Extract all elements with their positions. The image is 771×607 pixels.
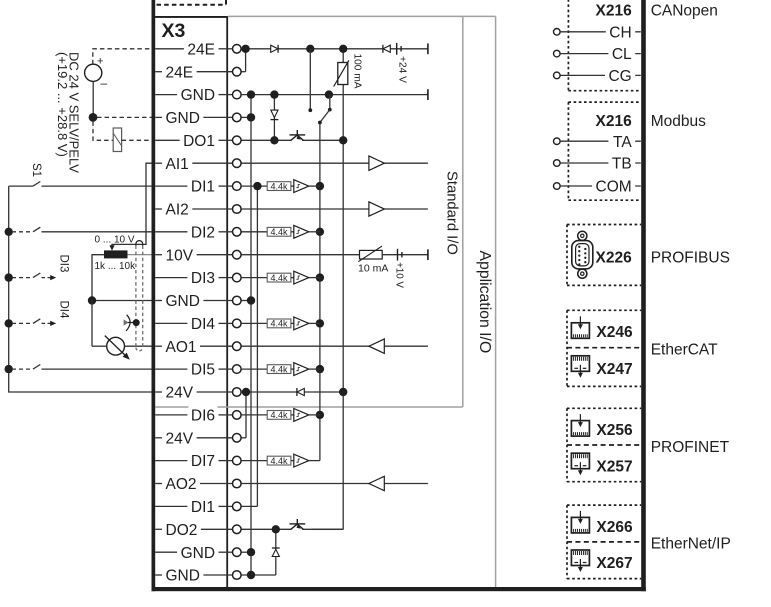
wire 24V row 16: [241, 391, 343, 393]
port RJ45 X247 out: [571, 356, 589, 372]
switch S1 to DI1: [9, 185, 33, 187]
junction switch bus DI5: [5, 365, 13, 373]
port RJ45 X266 in: [571, 517, 589, 533]
junction switch bus DI4: [5, 319, 13, 327]
terminal circle TA: [554, 138, 561, 145]
comparator DI3: [291, 277, 294, 279]
diode D3 vertical GND row3 to DO1: [273, 95, 275, 141]
wire digital-input common bus: [319, 123, 321, 461]
shield clamp: [126, 315, 130, 331]
svg-text:TB: TB: [612, 156, 632, 173]
svg-text:4.4k: 4.4k: [270, 181, 288, 191]
wire AI1 row 6: [241, 162, 428, 164]
wire relay to DO1 terminal (dashed): [122, 139, 152, 141]
wire DI5 comparator output: [309, 368, 320, 370]
wire AI1 to potentiometer wiper: [112, 163, 152, 248]
port RJ45 X267 out: [571, 550, 589, 566]
wire DI3 comparator output: [309, 277, 320, 279]
terminal circle DI2 row 9: [233, 228, 242, 237]
wire 24E pair bus: [245, 49, 247, 72]
wire COM: [560, 185, 641, 187]
svg-text:DI6: DI6: [191, 408, 215, 425]
junction DO1 output on +24V bus: [339, 136, 347, 144]
junction pot return on GND: [88, 296, 96, 304]
terminal circle AO1 row 14: [233, 342, 242, 351]
wire changeover NC branch from 24E: [309, 49, 311, 110]
svg-text:+24 V: +24 V: [397, 56, 408, 83]
contact DO1 output switch: [291, 135, 298, 140]
pin label DI2 row 9: [188, 222, 217, 241]
svg-text:X247: X247: [596, 361, 632, 378]
wire GND row 12 to GND bus: [241, 300, 251, 302]
resistor 4.4k DI6 input: [267, 411, 291, 420]
wire DI7 row 19 input: [241, 460, 267, 462]
junction 24V row 16: [242, 388, 250, 396]
junction shield connection: [133, 319, 140, 326]
X3 box top border: [152, 16, 229, 18]
wire meter to AO1 terminal: [125, 345, 152, 347]
pin label AO2 row 20: [163, 474, 199, 493]
svg-text:+10 V: +10 V: [394, 262, 405, 288]
Application I/O box: [463, 15, 496, 17]
svg-text:Application I/O: Application I/O: [476, 251, 493, 354]
svg-text:AI2: AI2: [166, 202, 189, 219]
comparator DI2: [291, 231, 294, 233]
terminal circle GND row 23: [233, 548, 242, 557]
cell +24 V external supply: [396, 43, 398, 55]
pin label DO2 row 22: [163, 520, 200, 539]
comparator DI6: [291, 414, 294, 416]
terminal circle DI7 row 19: [233, 456, 242, 465]
op-amp driver AO1: [369, 339, 384, 353]
diode D4 on 24V row: [296, 388, 298, 396]
svg-text:DI7: DI7: [191, 453, 215, 470]
wire GND bus: [250, 95, 252, 575]
svg-text:PROFIBUS: PROFIBUS: [651, 249, 730, 266]
svg-text:4.4k: 4.4k: [270, 273, 288, 283]
X3 box right border: [226, 16, 228, 587]
svg-text:X216: X216: [595, 113, 632, 130]
svg-text:COM: COM: [596, 179, 632, 196]
junction GND row 12: [247, 296, 255, 304]
wire DO2 row 22: [241, 528, 292, 530]
wire DI4 comparator output: [309, 322, 320, 324]
diode D2 at +24V supply: [382, 45, 384, 53]
terminal bar +24V input: [427, 43, 429, 54]
svg-text:DI3: DI3: [58, 255, 70, 273]
junction supply minus: [89, 113, 98, 122]
switch blade changeover: [320, 110, 330, 123]
terminal circle DI6 row 17: [233, 411, 242, 420]
svg-text:DI2: DI2: [191, 224, 215, 241]
meter P1 on AO1: [107, 337, 125, 355]
junction DI3 comparator output: [316, 273, 324, 281]
wire GND row 4 to GND bus: [241, 116, 251, 118]
svg-text:GND: GND: [166, 293, 200, 310]
wire DI4 row 13 input: [241, 322, 267, 324]
svg-text:10V: 10V: [166, 247, 194, 264]
wire GND row 23 to GND bus: [241, 551, 251, 553]
svg-text:DI1: DI1: [191, 499, 215, 516]
svg-text:Modbus: Modbus: [651, 113, 706, 130]
pin label 24V row 18: [163, 428, 196, 447]
wire DO1 row 5: [241, 139, 292, 141]
svg-text:DI4: DI4: [191, 316, 216, 333]
junction GND row 23: [247, 548, 255, 556]
wire meter left lead: [92, 345, 107, 347]
terminal circle DI1 row 7: [233, 182, 242, 191]
port RJ45 X256 in: [571, 421, 589, 437]
wire DI1 comparator output: [309, 185, 320, 187]
cable shield capsule: [136, 241, 143, 246]
wire changeover NO branch from GND: [329, 95, 331, 110]
junction GND row 3: [247, 90, 255, 98]
wire digital switch common bus: [9, 186, 152, 392]
switch to DI4 (remote): [12, 322, 33, 324]
svg-text:24E: 24E: [166, 64, 194, 81]
contact point NC: [308, 108, 312, 112]
svg-text:DI5: DI5: [191, 362, 215, 379]
terminal circle AI1 row 6: [233, 159, 242, 168]
option box PROFINET: [566, 408, 568, 481]
wire GND row 24 to freewheel diode: [241, 574, 276, 576]
svg-text:X257: X257: [596, 458, 632, 475]
wire DI1 row 21 link: [241, 505, 257, 507]
wire DI6 row 17 input: [241, 414, 267, 416]
terminal circle AO2 row 20: [233, 479, 242, 488]
svg-text:24V: 24V: [166, 385, 194, 402]
terminal circle DI3 row 11: [233, 273, 242, 282]
terminal circle CG: [554, 72, 561, 79]
svg-text:EtherCAT: EtherCAT: [651, 341, 718, 358]
junction changeover branch row 1: [306, 45, 314, 53]
wire pot return down to meter: [91, 301, 93, 347]
wire 24V pair bus rows 16-18: [245, 392, 247, 438]
diode D5 vertical DO2 to GND row24: [275, 529, 277, 575]
device frame bottom thick bar: [152, 587, 646, 591]
option box X216 Modbus: [567, 102, 569, 200]
relay load K1 on DO1: [113, 128, 121, 152]
svg-text:AI1: AI1: [166, 156, 189, 173]
Standard I/O box: [228, 15, 463, 17]
svg-text:X256: X256: [596, 422, 633, 439]
svg-text:CL: CL: [612, 46, 632, 63]
op-amp buffer AI2: [369, 202, 384, 216]
svg-text:–: –: [101, 76, 108, 90]
svg-text:DI1: DI1: [191, 179, 215, 196]
pin label DI5 row 15: [188, 360, 217, 379]
terminal circle DI4 row 13: [233, 319, 242, 328]
wire supply minus: [92, 81, 94, 117]
terminal bar 10V output: [427, 249, 429, 260]
option box EtherCAT: [566, 310, 568, 386]
svg-text:X226: X226: [595, 249, 632, 266]
svg-text:X246: X246: [596, 324, 633, 341]
terminal circle DO1 row 5: [233, 136, 242, 145]
svg-text:24V: 24V: [166, 430, 194, 447]
fuse F2 10 mA: [360, 250, 383, 259]
svg-text:100 mA: 100 mA: [352, 53, 363, 88]
svg-text:PROFINET: PROFINET: [651, 439, 730, 456]
terminal circle GND row 24: [233, 571, 242, 580]
junction switch bus DI2: [5, 228, 13, 236]
device frame right thick bar: [641, 0, 646, 591]
wire 10V supply segment: [382, 254, 428, 256]
terminal circle GND row 12: [233, 296, 242, 305]
resistor 4.4k DI3 input: [267, 273, 291, 282]
switch to DI2: [12, 231, 33, 233]
pin label AI2 row 8: [163, 200, 191, 219]
wire 24V row 18 link: [241, 437, 246, 439]
wire 10V row 10 to 10mA fuse: [241, 254, 360, 256]
svg-text:DO1: DO1: [183, 133, 215, 150]
svg-text:EtherNet/IP: EtherNet/IP: [651, 536, 731, 553]
junction DO1 diode branch: [270, 136, 278, 144]
pin label 24V row 16: [163, 383, 196, 402]
wire supply plus to 24E (dashed): [93, 49, 152, 64]
contact DO2 output switch: [291, 524, 298, 529]
svg-text:+: +: [97, 56, 103, 68]
svg-text:CH: CH: [609, 24, 631, 41]
svg-text:DO2: DO2: [166, 522, 198, 539]
svg-text:4.4k: 4.4k: [270, 410, 288, 420]
pin label DI7 row 19: [188, 451, 217, 470]
wire DI3 row 11 input: [241, 277, 267, 279]
terminal circle 10V row 10: [233, 250, 242, 259]
port RJ45 X257 out: [571, 453, 589, 469]
wire DI7 comparator output: [309, 460, 320, 462]
pin label DI3 row 11: [188, 268, 217, 287]
resistor 4.4k DI7 input: [267, 456, 291, 465]
option box EtherNet/IP: [566, 505, 568, 578]
pin label 10V row 10: [163, 245, 196, 264]
terminal circle 24E row 1: [233, 45, 242, 54]
svg-text:10 mA: 10 mA: [358, 263, 388, 275]
junction DI1 comparator output: [316, 182, 324, 190]
pin label GND row 3: [178, 85, 217, 104]
pin label AO1 row 14: [163, 337, 199, 356]
junction DI1 row 7: [253, 182, 261, 190]
terminal circle DI1 row 21: [233, 502, 242, 511]
op-amp buffer AI1: [369, 156, 384, 170]
wire DI2 comparator output: [309, 231, 320, 233]
svg-text:(+19.2 ... +28.8 V): (+19.2 ... +28.8 V): [55, 52, 70, 157]
option box X226 PROFIBUS: [566, 225, 568, 286]
junction DI5 comparator output: [316, 365, 324, 373]
X3 terminal strip left border: [152, 0, 156, 591]
svg-text:4.4k: 4.4k: [270, 227, 288, 237]
wire +24V internal bus: [342, 49, 344, 530]
pin label GND row 23: [178, 543, 217, 562]
wire AI2 row 8: [241, 208, 428, 210]
comparator DI4: [291, 322, 294, 324]
svg-text:X3: X3: [162, 20, 186, 42]
connector DB9 X226 icon: [572, 231, 593, 278]
wire DI1 row 7 input: [241, 185, 267, 187]
pin label AI1 row 6: [163, 154, 191, 173]
svg-text:X267: X267: [596, 555, 632, 572]
junction DI4 comparator output: [316, 319, 324, 327]
switch to DI5: [12, 368, 33, 370]
terminal circle TB: [554, 160, 561, 167]
cell +10 V reference: [397, 249, 399, 261]
svg-text:X266: X266: [596, 519, 633, 536]
wire CH: [560, 31, 641, 33]
wire supply minus to GND row4 (dashed): [97, 116, 152, 118]
comparator DI1: [291, 185, 294, 187]
wire 24E row 2 link: [241, 71, 246, 73]
svg-text:4.4k: 4.4k: [270, 319, 288, 329]
fuse F1 100 mA: [338, 63, 348, 85]
pin label GND row 24: [163, 566, 202, 585]
junction 24V row 16 on bus: [339, 388, 347, 396]
pin label DI6 row 17: [188, 406, 217, 425]
option box X216 CANopen: [567, 0, 569, 91]
resistor 4.4k DI5 input: [267, 365, 291, 374]
svg-text:AO2: AO2: [166, 476, 197, 493]
svg-text:CANopen: CANopen: [651, 2, 718, 19]
wire DI2 row 9 input: [241, 231, 267, 233]
terminal circle 24E row 2: [233, 67, 242, 76]
wire CL: [560, 53, 641, 55]
terminal circle AI2 row 8: [233, 205, 242, 214]
pin label DO1 row 5: [181, 131, 218, 150]
svg-text:S1: S1: [30, 163, 42, 177]
wire potentiometer left lead: [92, 255, 104, 301]
dashed connector box above X3 (cropped): [157, 4, 227, 6]
terminal circle COM: [554, 183, 561, 190]
junction +24V bus row 1: [339, 45, 347, 53]
svg-text:TA: TA: [613, 134, 632, 151]
pin label 24E row 1: [185, 39, 218, 58]
wire AO1 row 14: [241, 345, 428, 347]
svg-text:GND: GND: [166, 568, 200, 585]
wire supply to relay (dashed): [93, 121, 113, 140]
pin label GND row 4: [163, 108, 202, 127]
wire DI6 comparator output: [309, 414, 320, 416]
svg-text:CG: CG: [608, 68, 631, 85]
wire 24E row 1 to +24V supply input: [241, 48, 428, 50]
pin label GND row 12: [163, 291, 202, 310]
wire potentiometer right lead to 10V: [128, 254, 152, 256]
potentiometer R1 1k...10k: [104, 250, 128, 258]
svg-text:0 ... 10 V: 0 ... 10 V: [95, 234, 135, 245]
terminal circle 24V row 18: [233, 434, 242, 443]
terminal circle DO2 row 22: [233, 525, 242, 534]
wire GND row 12 to pot return: [92, 300, 152, 302]
terminal circle GND row 3: [233, 90, 242, 99]
comparator DI5: [291, 368, 294, 370]
pin label DI1 row 7: [188, 177, 217, 196]
wire GND row 3 to GND terminal bar: [241, 94, 428, 96]
wire AO2 row 20: [241, 483, 428, 485]
power source G1 DC 24 V: [85, 64, 102, 81]
junction diode branch GND row 3: [270, 90, 278, 98]
wire DO2 bus link: [312, 528, 343, 530]
svg-text:AO1: AO1: [166, 339, 197, 356]
svg-text:DI4: DI4: [58, 301, 70, 320]
resistor 4.4k DI4 input: [267, 319, 291, 328]
svg-text:X216: X216: [595, 2, 632, 19]
svg-text:24E: 24E: [187, 41, 215, 58]
junction DI2 comparator output: [316, 228, 324, 236]
junction GND row 3 switch branch: [325, 90, 333, 98]
svg-text:4.4k: 4.4k: [270, 364, 288, 374]
terminal circle DI5 row 15: [233, 365, 242, 374]
terminal circle CL: [554, 50, 561, 57]
terminal circle 24V row 16: [233, 388, 242, 397]
junction GND row 4: [247, 113, 255, 121]
resistor 4.4k DI2 input: [267, 227, 291, 236]
junction switch bus DI3: [5, 273, 13, 281]
resistor 4.4k DI1 input: [267, 182, 291, 191]
terminal circle CH: [554, 29, 561, 36]
junction DO2 row 22: [272, 525, 280, 533]
svg-text:Standard I/O: Standard I/O: [443, 171, 459, 255]
junction 24E rows 1-2: [241, 45, 249, 53]
pin label 24E row 2: [163, 62, 196, 81]
switch to DI3 (remote): [12, 277, 33, 279]
terminal circle GND row 4: [233, 113, 242, 122]
pin label DI4 row 13: [188, 314, 217, 333]
diode D1 on 24E row: [271, 45, 278, 52]
svg-text:GND: GND: [181, 87, 215, 104]
port RJ45 X246 in: [571, 323, 589, 339]
junction GND row 24: [247, 571, 255, 579]
wire TB: [560, 162, 641, 164]
wire DI1 bus rows 7-21: [256, 186, 258, 506]
pin label DI1 row 21: [188, 497, 217, 516]
wire DI5 row 15 input: [241, 368, 267, 370]
svg-text:GND: GND: [166, 110, 200, 127]
svg-text:GND: GND: [181, 545, 215, 562]
svg-text:DI3: DI3: [191, 270, 215, 287]
wire TA: [560, 140, 641, 142]
svg-text:4.4k: 4.4k: [270, 456, 288, 466]
terminal bar GND: [427, 89, 429, 100]
contact point NO: [328, 108, 332, 112]
comparator DI7: [291, 460, 294, 462]
op-amp driver AO2: [369, 476, 384, 490]
junction DI6 comparator output: [316, 411, 324, 419]
svg-text:1k ... 10k: 1k ... 10k: [95, 261, 137, 272]
wire CG: [560, 74, 641, 76]
